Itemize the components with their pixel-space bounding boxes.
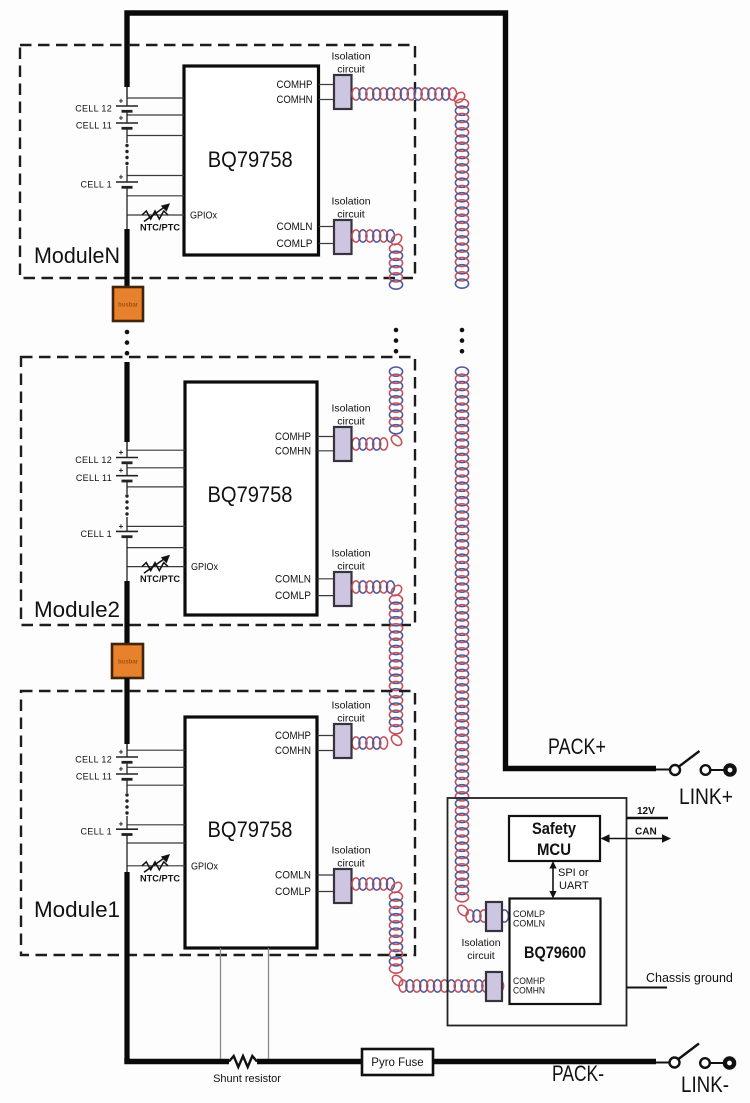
svg-text:busbar: busbar [118,660,139,666]
svg-text:LINK-: LINK- [681,1072,729,1097]
wire cell tap 1 (Module1) [127,749,185,751]
pin COMLP (ModuleN) [319,243,335,245]
svg-text:+: + [119,173,124,182]
isolation circuit (BQ79600 upper) [486,902,502,931]
svg-text:Safety: Safety [532,819,576,838]
svg-text:COMLN: COMLN [275,870,311,882]
svg-text:Isolation: Isolation [331,196,370,208]
svg-text:CELL 1: CELL 1 [81,180,113,190]
wire PACK- main (bottom bus) [127,1058,229,1062]
wire twisted-pair into Module2 COMH [352,367,404,450]
svg-text:Isolation: Isolation [461,937,500,949]
svg-text:COMLN: COMLN [277,221,313,233]
svg-text:GPIOx: GPIOx [191,860,219,872]
battery cell CELL 1 (Module1) [116,828,138,830]
svg-text:NTC/PTC: NTC/PTC [140,223,180,234]
svg-text:Module1: Module1 [34,897,120,922]
isolation circuit (lower, ModuleN) [334,220,352,254]
battery cell CELL 12 (Module1) [116,756,138,758]
svg-text:+: + [119,820,124,829]
svg-text:COMLP: COMLP [277,238,313,250]
svg-text:CELL 11: CELL 11 [76,772,112,782]
pyro fuse [362,1049,433,1075]
wire cell tap 4 (ModuleN) [127,175,184,177]
wire twisted-pair COMH (ModuleN) horizontal [352,88,467,105]
wire GPIOx (Module2) [127,566,185,568]
svg-text:+: + [119,748,124,757]
svg-text:CAN: CAN [635,827,657,838]
busbar (between Module2 and Module1) [112,644,143,678]
battery stack ellipsis (Module1) [125,793,128,796]
svg-text:PACK+: PACK+ [548,734,606,759]
pin COMLN (Module1) [317,874,334,876]
svg-text:Pyro Fuse: Pyro Fuse [371,1057,423,1069]
wire cell tap 3 (ModuleN) [127,135,184,137]
wire 12V [627,817,669,819]
svg-text:Module2: Module2 [34,597,120,622]
svg-text:COMHN: COMHN [275,745,311,757]
battery cell CELL 11 (ModuleN) [116,122,138,124]
wire twisted-pair right bus (mid) [455,367,470,918]
shunt resistor [229,1056,257,1067]
pin COMHN (Module1) [317,750,334,752]
svg-text:BQ79600: BQ79600 [524,943,586,962]
svg-text:NTC/PTC: NTC/PTC [140,574,180,585]
svg-text:CELL 12: CELL 12 [75,455,112,465]
svg-text:CELL 12: CELL 12 [75,755,112,765]
svg-text:COMHN: COMHN [277,94,313,106]
rail segments Module1 [126,750,128,757]
svg-text:+: + [119,448,124,457]
wire cell tap 3 (Module1) [127,784,185,786]
wire cell tap 2 (Module2) [127,467,185,469]
switch PACK-/LINK- [656,1062,670,1064]
battery cell CELL 12 (ModuleN) [116,105,138,107]
svg-text:circuit: circuit [337,561,365,573]
BQ79600 system outer box [448,798,627,1026]
battery stack rail (Module2) [126,442,128,450]
wire cell tap 5 (Module1) [127,842,185,844]
svg-text:Isolation: Isolation [331,51,370,63]
wire cell tap 4 (Module1) [127,824,185,826]
module ModuleN dashed boundary [20,45,415,278]
wire rail into Module1 [124,678,129,744]
ellipsis continuation (left rail) [125,330,130,335]
wire PACK+ main (top bus) [127,13,656,769]
pin COMLP (Module2) [317,595,334,597]
svg-text:circuit: circuit [337,713,365,725]
wire cell tap 3 (Module2) [127,486,185,488]
svg-text:Isolation: Isolation [331,403,370,415]
svg-text:circuit: circuit [467,950,495,962]
svg-text:circuit: circuit [337,209,365,221]
svg-text:Isolation: Isolation [331,845,370,857]
Safety MCU box [509,816,600,861]
svg-text:COMHP: COMHP [275,431,311,443]
wire GPIOx (Module1) [127,865,185,867]
wire twisted-pair into Module1 COMH [352,737,388,749]
svg-text:UART: UART [559,880,589,892]
svg-text:LINK+: LINK+ [679,784,733,809]
svg-text:COMLN: COMLN [275,573,311,585]
svg-text:Chassis ground: Chassis ground [646,971,733,985]
pin COMHN (ModuleN) [319,99,335,101]
BQ79758 IC box (ModuleN) [184,66,319,255]
svg-text:NTC/PTC: NTC/PTC [140,873,180,884]
svg-text:+: + [119,97,124,106]
NTC/PTC thermistor (Module2) [142,563,168,571]
isolation circuit (upper, Module1) [334,724,352,758]
svg-text:CELL 12: CELL 12 [75,104,112,114]
wire cell tap 1 (ModuleN) [127,97,184,99]
svg-text:BQ79758: BQ79758 [208,482,293,507]
svg-text:+: + [119,765,124,774]
wire cell tap 2 (ModuleN) [127,114,184,116]
svg-text:MCU: MCU [537,840,571,859]
battery cell CELL 11 (Module1) [116,773,138,775]
svg-text:COMLP: COMLP [275,590,311,602]
wire rail into Module2 [124,362,129,442]
wire shunt sense lines [220,948,222,1059]
svg-text:+: + [119,466,124,475]
wire twisted-pair COML (Module2) [352,581,404,748]
svg-text:CELL 1: CELL 1 [81,529,113,539]
wire chassis ground [627,987,668,989]
svg-text:COMHP: COMHP [277,79,313,91]
pin COMHN (Module2) [317,450,334,452]
isolation circuit (BQ79600 lower) [486,972,502,1001]
wire GPIOx (ModuleN) [127,214,184,216]
pin COMLN (ModuleN) [319,226,335,228]
battery cell CELL 1 (ModuleN) [116,181,138,183]
svg-text:ModuleN: ModuleN [34,243,120,268]
svg-text:12V: 12V [637,806,655,817]
svg-text:Shunt resistor: Shunt resistor [213,1073,281,1085]
svg-text:circuit: circuit [337,858,365,870]
battery cell CELL 1 (Module2) [116,530,138,532]
battery stack rail (Module1) [126,744,128,750]
pin COMHP (Module1) [317,735,334,737]
svg-text:GPIOx: GPIOx [191,561,219,573]
svg-text:COMLP: COMLP [275,886,311,898]
svg-text:circuit: circuit [337,416,365,428]
svg-text:BQ79758: BQ79758 [208,147,293,172]
svg-text:SPI or: SPI or [558,867,589,879]
svg-text:PACK-: PACK- [552,1061,604,1086]
svg-text:COMHN: COMHN [275,445,311,457]
switch PACK+/LINK+ [656,769,670,771]
wire twisted-pair right bus into BQ79600 [466,910,509,922]
rail segments Module2 [126,450,128,458]
module Module2 dashed boundary [21,357,415,625]
module Module1 dashed boundary [21,691,415,955]
battery stack ellipsis (ModuleN) [125,144,128,147]
BQ79758 IC box (Module2) [185,382,317,615]
svg-text:COMHN: COMHN [513,986,545,997]
NTC/PTC thermistor (ModuleN) [142,211,168,219]
busbar (between ModuleN and Module2) [113,287,143,321]
wire cell tap 5 (ModuleN) [127,195,184,197]
svg-text:Isolation: Isolation [331,548,370,560]
wire cell tap 1 (Module2) [127,449,185,451]
BQ79600 IC box [510,899,601,1005]
battery cell CELL 11 (Module2) [116,475,138,477]
wire cell tap 4 (Module2) [127,525,185,527]
svg-text:Isolation: Isolation [331,700,370,712]
rail segments ModuleN [126,98,128,106]
ellipsis continuation (daisy chain) [394,328,399,333]
wire cell tap 5 (Module2) [127,547,185,549]
svg-text:BQ79758: BQ79758 [208,817,293,842]
wire cell tap 2 (Module1) [127,766,185,768]
isolation circuit (lower, Module1) [334,869,352,903]
pin COMLN (Module2) [317,578,334,580]
svg-text:CELL 11: CELL 11 [76,121,112,131]
svg-text:circuit: circuit [337,64,365,76]
SPI or UART arrow [552,867,554,893]
wire twisted-pair vertical right bus (upper) [455,99,468,288]
ellipsis continuation (right bus) [460,328,465,333]
battery stack ellipsis (Module2) [125,494,128,497]
NTC/PTC thermistor (Module1) [142,862,168,870]
svg-text:GPIOx: GPIOx [190,210,218,222]
svg-text:+: + [119,522,124,531]
BQ79758 IC box (Module1) [185,717,317,948]
svg-text:CELL 1: CELL 1 [81,827,113,837]
svg-text:busbar: busbar [118,303,139,309]
svg-text:COMHP: COMHP [275,730,311,742]
wire twisted-pair COML (Module1) to BQ79600 [352,878,504,992]
pin COMLP (Module1) [317,891,334,893]
svg-text:COMLN: COMLN [513,919,545,930]
isolation circuit (upper, ModuleN) [334,75,352,109]
svg-text:+: + [119,114,124,123]
isolation circuit (upper, Module2) [334,427,352,461]
battery cell CELL 12 (Module2) [116,457,138,459]
battery stack rail (ModuleN) [126,87,128,98]
isolation circuit (lower, Module2) [334,572,352,606]
wire CAN (bidirectional) [607,838,664,840]
svg-text:CELL 11: CELL 11 [76,473,112,483]
pin COMHP (ModuleN) [319,84,335,86]
pin COMHP (Module2) [317,436,334,438]
wire twisted-pair COML (ModuleN) [352,230,404,289]
